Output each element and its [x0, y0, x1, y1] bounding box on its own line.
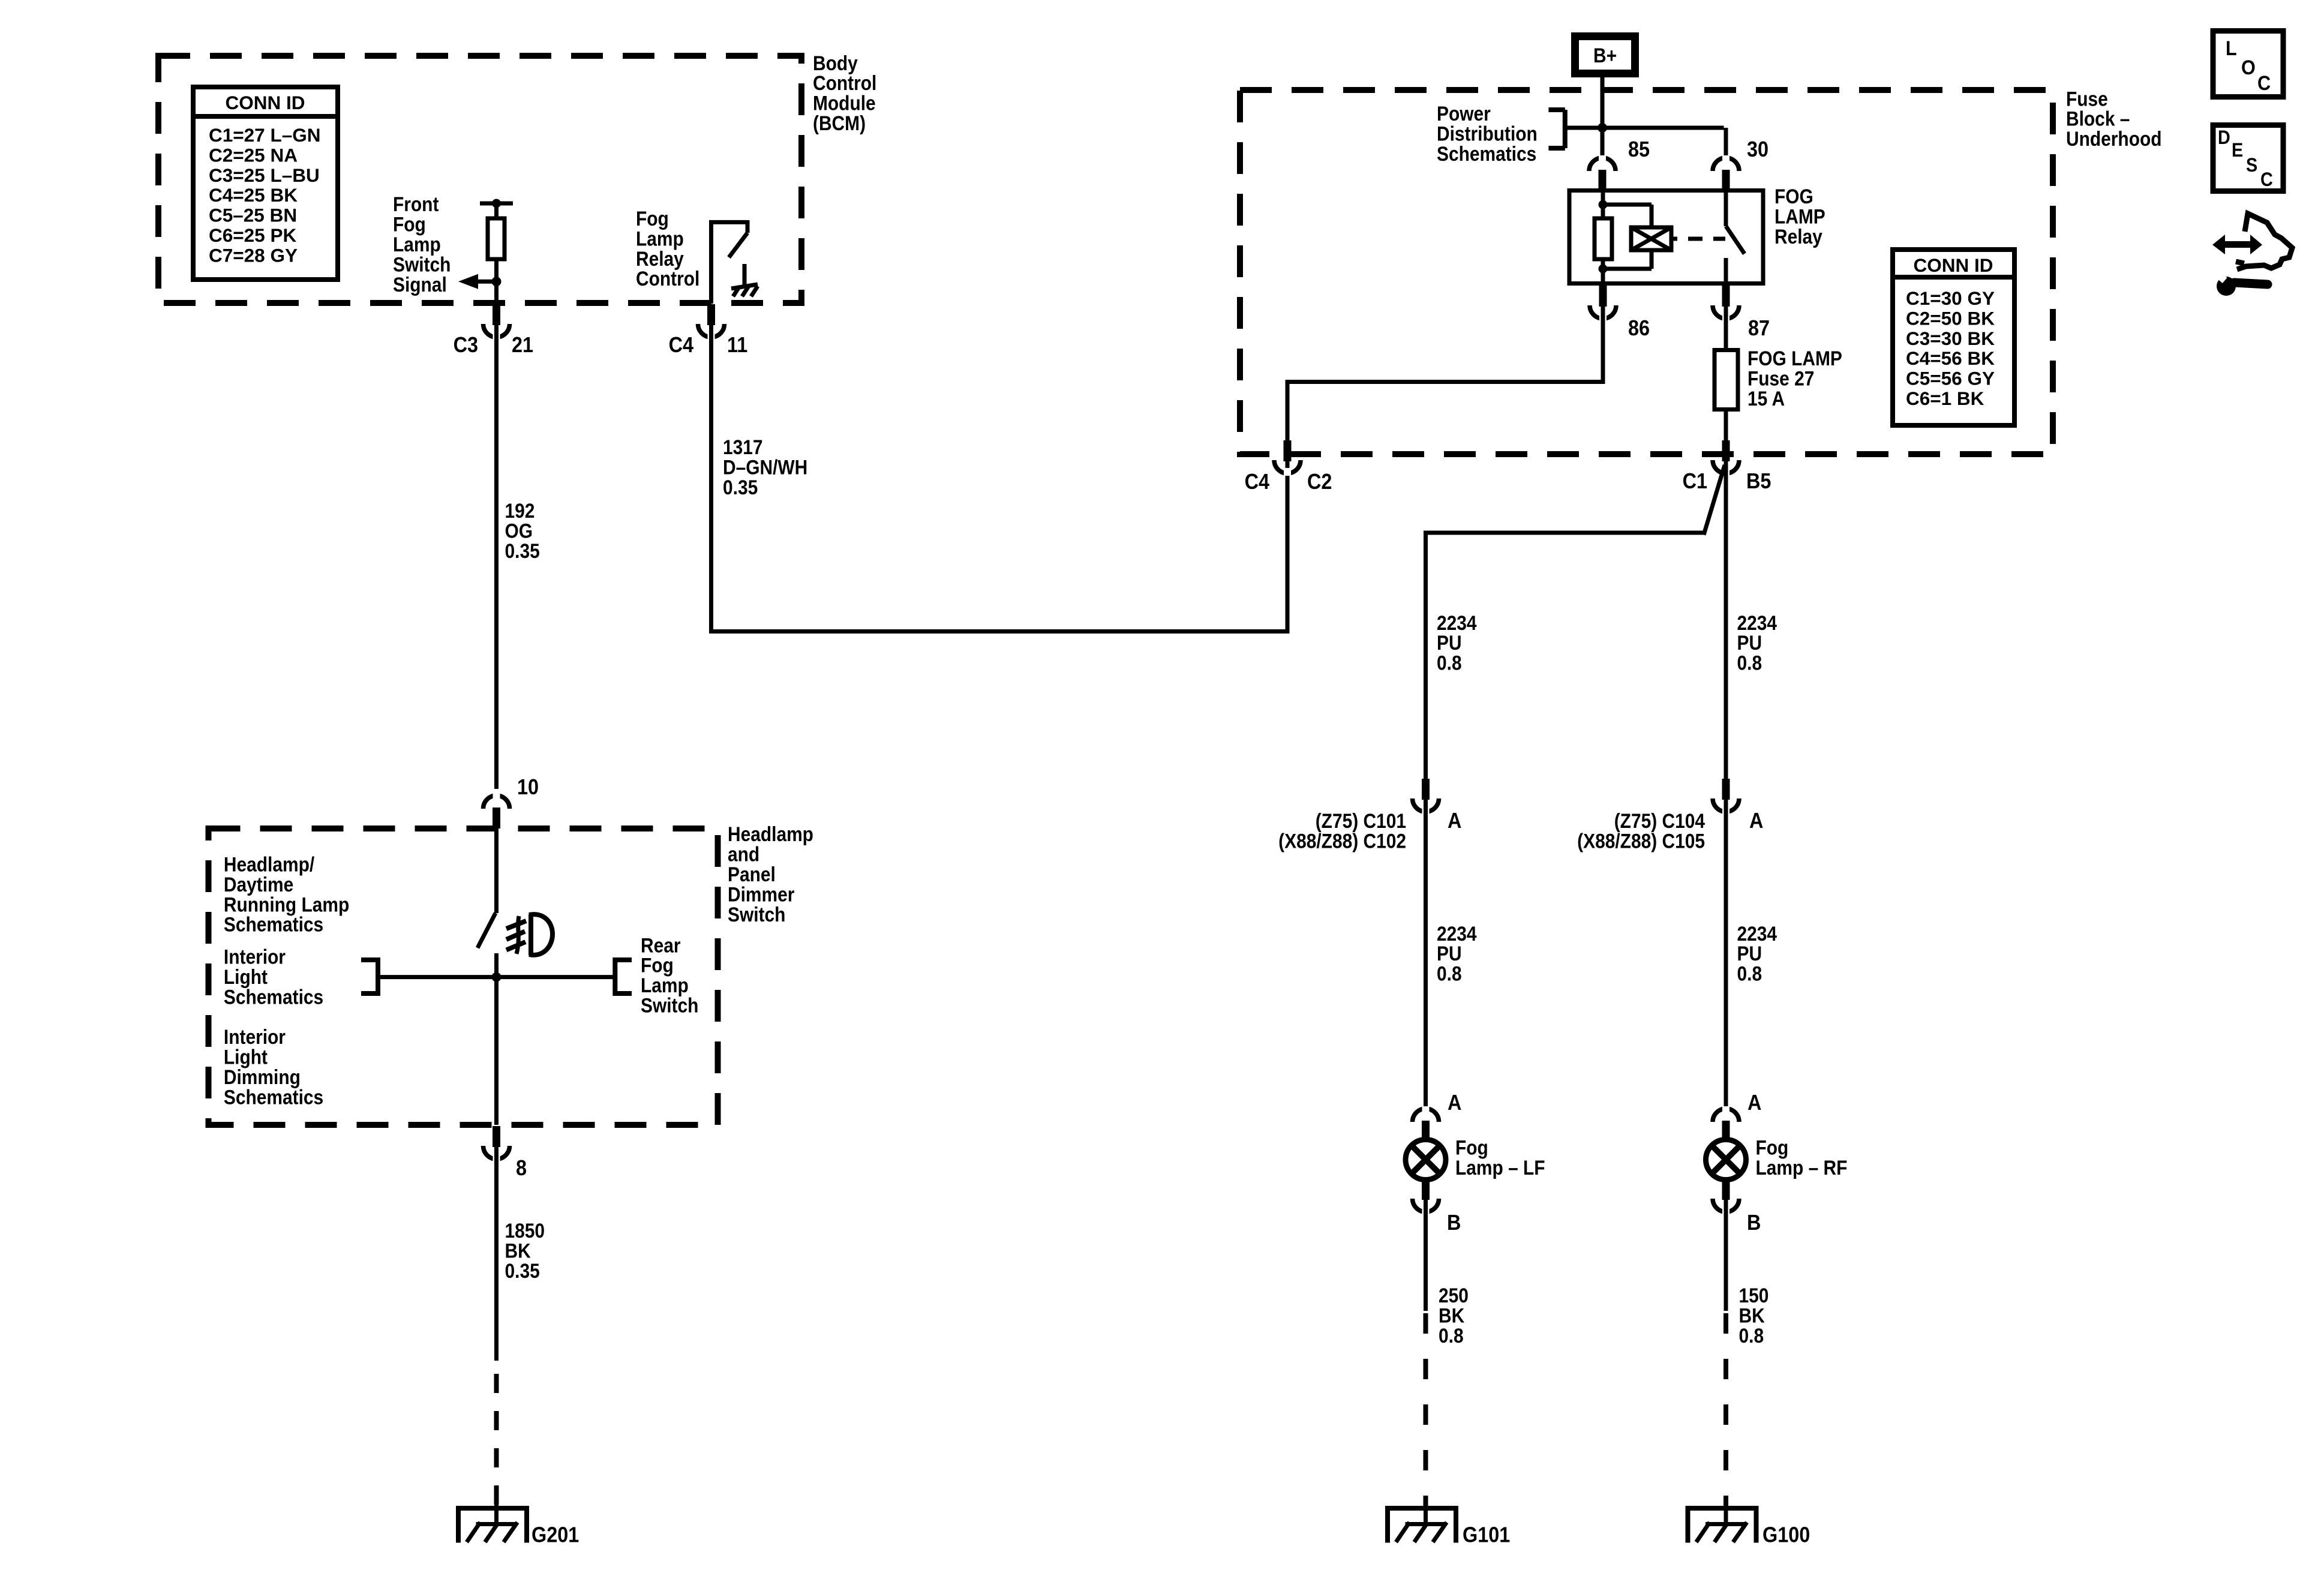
ground G101 — [1388, 1502, 1510, 1547]
junction (B+ distribution) — [1598, 123, 1607, 133]
svg-text:Schematics: Schematics — [224, 986, 323, 1008]
label Body Control Module (BCM) — [813, 52, 876, 134]
wire 2234 PU (lower left) — [1426, 798, 1477, 1109]
wire 1317 D-GN/WH 0.35 — [709, 324, 1290, 634]
ground G201 — [458, 1502, 579, 1547]
svg-text:C3: C3 — [454, 333, 478, 357]
wire 2234 PU (upper left riser) — [1424, 465, 1725, 782]
label Fuse Block - Underhood — [2066, 88, 2162, 151]
svg-text:C4=56 BK: C4=56 BK — [1906, 347, 1995, 369]
svg-text:30: 30 — [1747, 137, 1768, 161]
chassis ground (relay control reference) — [731, 264, 758, 296]
label Interior Light Dimming Schematics — [224, 1025, 323, 1108]
label Headlamp/Daytime Running Lamp Schematics — [224, 853, 349, 936]
svg-text:0.8: 0.8 — [1737, 962, 1762, 985]
fuse FOG LAMP Fuse 27 15 A — [1715, 305, 1842, 440]
svg-text:11: 11 — [727, 333, 747, 357]
svg-text:(X88/Z88) C102: (X88/Z88) C102 — [1278, 830, 1406, 852]
svg-text:A: A — [1448, 809, 1461, 833]
table CONN ID (fuse block connectors) — [1893, 250, 2014, 425]
svg-text:CONN ID: CONN ID — [226, 92, 305, 113]
connector pin 10 (dimmer switch) — [484, 775, 539, 828]
connector 86 — [1590, 286, 1650, 340]
relay coil — [1595, 190, 1725, 283]
svg-text:0.8: 0.8 — [1437, 962, 1462, 985]
svg-text:C1=30 GY: C1=30 GY — [1906, 287, 1995, 309]
svg-text:0.8: 0.8 — [1439, 1324, 1464, 1347]
svg-text:O: O — [2241, 56, 2256, 79]
svg-text:(BCM): (BCM) — [813, 112, 866, 134]
label Interior Light Schematics — [224, 945, 323, 1008]
svg-text:B5: B5 — [1746, 469, 1771, 493]
svg-text:D: D — [2218, 127, 2230, 149]
svg-text:C5–25 BN: C5–25 BN — [209, 205, 297, 226]
svg-text:Schematics: Schematics — [1437, 142, 1536, 165]
connector C101/C102 (LF) — [1278, 779, 1461, 852]
svg-text:G201: G201 — [532, 1523, 579, 1547]
svg-text:S: S — [2246, 155, 2257, 176]
icon DESC — [2213, 125, 2283, 191]
svg-text:Underhood: Underhood — [2066, 127, 2162, 150]
svg-text:8: 8 — [516, 1156, 527, 1180]
svg-text:0.35: 0.35 — [505, 1259, 540, 1282]
svg-text:(X88/Z88) C105: (X88/Z88) C105 — [1577, 830, 1705, 852]
svg-text:10: 10 — [517, 775, 539, 799]
connector 85 — [1589, 137, 1650, 191]
switch (fog lamp switch) — [478, 828, 497, 1125]
fog lamp icon — [506, 914, 553, 955]
dashed wire to G101 — [1424, 1311, 1428, 1507]
svg-text:G100: G100 — [1762, 1523, 1810, 1547]
svg-text:B: B — [1747, 1211, 1761, 1235]
connector C3 pin 21 — [454, 304, 533, 357]
signal arrow + junction — [458, 274, 502, 289]
battery feed B+ — [1575, 37, 1635, 74]
connector C1/B5 — [1683, 440, 1771, 493]
svg-text:Schematics: Schematics — [224, 1086, 323, 1109]
svg-text:C2=50 BK: C2=50 BK — [1906, 307, 1995, 329]
table CONN ID (BCM connectors) — [193, 87, 338, 280]
wire from B+ to junction — [1601, 77, 1605, 158]
module box Fuse Block - Underhood — [1240, 90, 2053, 454]
svg-text:C1: C1 — [1683, 469, 1707, 493]
wire 250 BK 0.8 — [1426, 1199, 1469, 1347]
svg-text:Switch: Switch — [728, 903, 785, 926]
bracket (rear fog lamp switch ref) — [497, 957, 632, 996]
svg-text:A: A — [1747, 1091, 1761, 1115]
svg-text:C2: C2 — [1307, 470, 1332, 494]
svg-text:15 A: 15 A — [1747, 387, 1785, 410]
connector B (LF) — [1413, 1179, 1461, 1235]
bracket (power distribution schematics ref) — [1548, 110, 1602, 148]
connector A (LF) — [1413, 1091, 1462, 1142]
svg-text:C4=25 BK: C4=25 BK — [209, 184, 298, 206]
svg-text:C: C — [2260, 169, 2273, 191]
wire 1850 BK 0.35 — [497, 1146, 545, 1361]
icon vehicle service (arrow, car, wrench) — [2212, 214, 2292, 296]
module box Headlamp and Panel Dimmer Switch — [209, 828, 718, 1125]
wire 150 BK 0.8 — [1726, 1199, 1768, 1347]
svg-text:G101: G101 — [1463, 1523, 1510, 1547]
icon LOC — [2213, 31, 2283, 97]
svg-text:86: 86 — [1628, 316, 1650, 340]
svg-text:Signal: Signal — [393, 273, 447, 296]
label Front Fog Lamp Switch Signal — [393, 193, 451, 296]
svg-text:Control: Control — [636, 267, 699, 290]
svg-text:Switch: Switch — [641, 994, 698, 1017]
wire 2234 PU (lower right) — [1726, 798, 1777, 1109]
svg-text:C4: C4 — [1245, 470, 1269, 494]
wire 2234 PU (upper right riser) — [1726, 460, 1777, 782]
svg-text:21: 21 — [512, 333, 533, 357]
svg-text:0.8: 0.8 — [1737, 652, 1762, 674]
svg-text:A: A — [1448, 1091, 1461, 1115]
svg-text:CONN ID: CONN ID — [1914, 254, 1993, 276]
svg-text:Schematics: Schematics — [224, 913, 323, 936]
label FOG LAMP Relay — [1774, 185, 1825, 248]
svg-text:B: B — [1447, 1211, 1461, 1235]
dashed wire to G100 — [1724, 1311, 1728, 1507]
wire from 86 to C2 — [1286, 305, 1605, 440]
svg-text:Lamp – LF: Lamp – LF — [1455, 1156, 1545, 1179]
ground G100 — [1688, 1502, 1810, 1547]
svg-text:C1=27 L–GN: C1=27 L–GN — [209, 124, 320, 146]
relay box (fog lamp relay) — [1569, 191, 1763, 284]
wire 192 OG 0.35 — [497, 324, 540, 789]
svg-text:C: C — [2257, 72, 2271, 95]
svg-text:85: 85 — [1628, 137, 1650, 161]
svg-text:C3=25 L–BU: C3=25 L–BU — [209, 164, 320, 186]
connector 30 — [1713, 137, 1768, 191]
svg-text:C6=25 PK: C6=25 PK — [209, 224, 296, 246]
bracket (interior light schematics ref) — [361, 957, 497, 996]
svg-text:Lamp – RF: Lamp – RF — [1756, 1156, 1848, 1179]
relay switch — [1726, 190, 1744, 283]
label Headlamp and Panel Dimmer Switch — [728, 822, 813, 926]
dashed wire to G201 — [494, 1361, 499, 1507]
label Power Distribution Schematics — [1437, 102, 1538, 165]
fog lamp LF — [1406, 1136, 1545, 1180]
wire (signal to C3) — [494, 281, 499, 304]
svg-text:0.8: 0.8 — [1739, 1324, 1764, 1347]
connector 87 — [1713, 286, 1770, 340]
svg-text:C3=30 BK: C3=30 BK — [1906, 328, 1995, 349]
svg-text:L: L — [2226, 37, 2237, 60]
label Rear Fog Lamp Switch — [641, 934, 698, 1017]
svg-text:A: A — [1749, 809, 1763, 833]
label Fog Lamp Relay Control — [636, 207, 699, 290]
svg-text:Relay: Relay — [1774, 225, 1822, 248]
switch (fog lamp relay control driver) — [709, 220, 747, 304]
connector B (RF) — [1713, 1179, 1761, 1235]
svg-text:C7=28 GY: C7=28 GY — [209, 244, 298, 266]
connector A (RF) — [1713, 1091, 1761, 1142]
svg-text:E: E — [2232, 140, 2243, 161]
svg-text:B+: B+ — [1593, 44, 1617, 67]
svg-text:C2=25 NA: C2=25 NA — [209, 144, 298, 166]
svg-text:C4: C4 — [669, 333, 693, 357]
resistor (front fog lamp switch signal pull-up) — [480, 199, 513, 282]
svg-text:C6=1 BK: C6=1 BK — [1906, 388, 1984, 409]
fog lamp RF — [1706, 1136, 1848, 1180]
svg-text:0.35: 0.35 — [505, 539, 540, 562]
junction (dimmer switch) — [492, 972, 502, 982]
svg-text:C5=56 GY: C5=56 GY — [1906, 368, 1995, 389]
svg-text:87: 87 — [1748, 316, 1770, 340]
connector pin 8 — [484, 1126, 527, 1180]
connector C104/C105 (RF) — [1577, 779, 1763, 852]
svg-text:0.8: 0.8 — [1437, 652, 1462, 674]
module box Body Control Module (BCM) — [158, 56, 801, 303]
svg-text:0.35: 0.35 — [723, 476, 758, 499]
connector C4/C2 (fuse block underside) — [1245, 440, 1332, 494]
connector C4 pin 11 — [669, 304, 748, 357]
wire to relay pin 30 — [1602, 128, 1726, 158]
